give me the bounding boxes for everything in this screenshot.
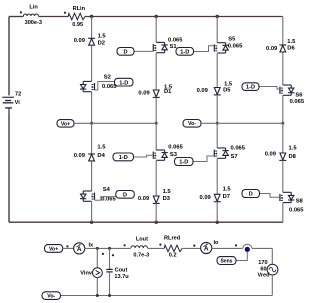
dc source Vi [2, 92, 21, 114]
svg-text:1-D: 1-D [180, 49, 189, 55]
polarity dot Cout [112, 254, 114, 256]
svg-text:1.5: 1.5 [287, 39, 296, 45]
svg-text:1-D: 1-D [179, 160, 188, 166]
svg-text:S2: S2 [104, 75, 111, 81]
svg-text:0.065: 0.065 [168, 38, 183, 44]
svg-text:RLred: RLred [164, 236, 181, 242]
svg-text:0.065: 0.065 [101, 196, 116, 202]
diode D6 [266, 39, 296, 52]
mosfet S4 [80, 187, 116, 202]
ammeter Io [201, 240, 219, 253]
resistor RLin [68, 6, 85, 28]
svg-text:0.09: 0.09 [266, 46, 278, 52]
wire c2 mid-S3 [155, 123, 157, 150]
node Sens (dot) [245, 247, 250, 252]
svg-text:1.5: 1.5 [163, 189, 172, 195]
wire right bottom [271, 275, 273, 296]
wire c2 S1-D1 [155, 53, 157, 90]
wire c4 S6-mid [282, 95, 284, 123]
diode D3 [138, 189, 172, 203]
junction Cout bottom [108, 294, 111, 297]
svg-text:0.065: 0.065 [231, 146, 246, 152]
svg-text:S4: S4 [103, 187, 111, 193]
svg-text:1-D: 1-D [119, 155, 128, 161]
diode D2 [74, 34, 107, 47]
junction bottom c2 [155, 221, 158, 224]
svg-text:S3: S3 [170, 152, 178, 158]
wire c2 top [155, 17, 157, 43]
mosfet S6 [280, 85, 305, 105]
svg-text:Vi: Vi [15, 100, 21, 106]
svg-text:60: 60 [260, 266, 266, 272]
node tag Sens [217, 257, 236, 265]
wire c2 S3-D3 [155, 160, 157, 196]
polarity dot Io left [193, 245, 195, 247]
diode D4 [74, 145, 107, 161]
svg-text:D: D [123, 192, 127, 198]
svg-text:1.5: 1.5 [224, 82, 233, 88]
svg-text:300e-3: 300e-3 [25, 20, 42, 26]
wire Vo+ to ammeter [63, 247, 74, 249]
ac source Vred [257, 260, 277, 278]
svg-text:RLin: RLin [73, 6, 86, 12]
svg-text:1-D: 1-D [246, 85, 255, 91]
svg-text:D3: D3 [163, 196, 171, 202]
wire c1 S4-bottom [91, 201, 93, 222]
svg-text:Lin: Lin [29, 5, 38, 11]
wire Io-node [212, 247, 243, 249]
junction mid c3 [216, 122, 219, 125]
gating block 1-D (S2) [115, 78, 134, 86]
inductor Lout [131, 236, 149, 258]
wire top rail seg2 [38, 16, 68, 18]
mosfet S8 [280, 192, 304, 213]
junction bottom c1 [90, 221, 93, 224]
svg-text:D5: D5 [223, 88, 231, 94]
svg-text:A: A [77, 246, 82, 253]
svg-text:Vo+: Vo+ [49, 246, 58, 252]
wire Vo- rail [201, 122, 283, 124]
svg-text:Vo+: Vo+ [61, 121, 70, 127]
svg-text:1.5: 1.5 [289, 146, 298, 152]
mosfet S5 [214, 37, 243, 53]
wire bottom rail [9, 221, 283, 223]
polarity dot Vinv [102, 253, 104, 255]
junction Cout top [108, 247, 111, 250]
wire c4 D8-S8 [282, 160, 284, 192]
node tag Vo+ (out) [45, 245, 63, 253]
polarity dot node [235, 244, 237, 246]
svg-text:D: D [249, 192, 253, 198]
diode D8 [265, 146, 298, 161]
wire c4 mid-D8 [282, 123, 284, 153]
svg-text:1.5: 1.5 [97, 145, 106, 151]
svg-text:S5: S5 [228, 37, 236, 43]
polarity dot Ix [66, 245, 68, 247]
junction top c2 [155, 15, 158, 18]
wire c3 D7-bottom [216, 202, 218, 223]
svg-text:0.09: 0.09 [74, 153, 86, 159]
svg-text:Vo-: Vo- [47, 294, 55, 300]
svg-text:0.09: 0.09 [265, 152, 277, 158]
wire c1 mid-D4 [91, 123, 93, 154]
wire c1 S2-mid [91, 92, 93, 124]
svg-text:72: 72 [15, 92, 21, 98]
wire c1 D2-S2 [91, 45, 93, 81]
polarity dot Lout [124, 244, 126, 246]
wire top rail seg3 [85, 16, 283, 18]
svg-text:S8: S8 [296, 198, 304, 204]
mosfet S7 [214, 146, 245, 160]
svg-text:0.2: 0.2 [169, 253, 177, 259]
svg-text:1.5: 1.5 [223, 187, 232, 193]
wire c1 top [91, 17, 93, 39]
wire top rail seg1 [9, 16, 24, 18]
svg-text:Lout: Lout [136, 236, 148, 242]
node tag Vo- (out) [42, 292, 61, 300]
svg-text:Sens: Sens [221, 258, 233, 264]
svg-text:D4: D4 [97, 153, 105, 159]
svg-text:D2: D2 [98, 41, 105, 47]
inductor Lin [23, 5, 42, 26]
wire ammeter-junctions [85, 247, 131, 249]
svg-text:D1: D1 [164, 89, 172, 95]
polarity dot RLred [159, 244, 161, 246]
svg-text:S7: S7 [231, 154, 238, 160]
junction mid c2 [155, 122, 158, 125]
svg-text:1.5: 1.5 [98, 34, 107, 40]
polarity dot RLin [64, 12, 66, 14]
svg-text:0.09: 0.09 [200, 195, 212, 201]
svg-text:D7: D7 [223, 194, 230, 200]
junction top c3 [216, 15, 219, 18]
wire c4 D6-S6 [282, 52, 284, 85]
diode D5 [197, 82, 233, 95]
wire gate S7 [193, 156, 214, 162]
junction mid c1 [90, 122, 93, 125]
wire right down [271, 248, 273, 264]
gating block 1-D (S5) [176, 48, 194, 56]
wire c4 top [282, 17, 284, 46]
svg-text:Io: Io [214, 240, 220, 246]
wire gate S4 [95, 197, 116, 201]
wire c3 D5-mid [216, 95, 218, 123]
ammeter Ix [74, 242, 94, 254]
svg-text:0.065: 0.065 [168, 145, 183, 151]
wire gate S3 [134, 155, 154, 157]
wire c3 S5-D5 [216, 53, 218, 88]
wire c2 D3-bottom [155, 203, 157, 222]
svg-text:0.09: 0.09 [197, 88, 209, 94]
wire Sens stub [236, 252, 247, 261]
gating block D (S1) [117, 48, 134, 56]
svg-text:0.09: 0.09 [74, 38, 86, 44]
wire Lout-RLred [147, 247, 164, 249]
diode D1 [138, 84, 172, 97]
wire node-corner [252, 247, 272, 249]
svg-text:A: A [204, 246, 209, 253]
svg-text:Vo-: Vo- [188, 121, 196, 127]
svg-text:D8: D8 [289, 154, 297, 160]
wire hop over Sens node [243, 244, 252, 248]
mosfet S3 [153, 145, 183, 161]
junction mid c4 [281, 122, 284, 125]
wire gate S1 [134, 50, 153, 52]
gating block D (S8) [242, 190, 260, 198]
gating block 1-D (S7) [175, 158, 194, 166]
svg-text:0.065: 0.065 [290, 99, 305, 105]
polarity dot Lin [20, 11, 22, 13]
mosfet S2 [80, 75, 117, 92]
diode D7 [200, 187, 232, 202]
junction Vinv top [96, 247, 99, 250]
svg-text:0.09: 0.09 [138, 196, 150, 202]
svg-text:13.7u: 13.7u [114, 274, 129, 280]
gating block 1-D (S6) [242, 83, 259, 91]
svg-text:Cout: Cout [115, 268, 128, 274]
capacitor Cout [106, 248, 129, 295]
wire c4 S8-bottom [282, 203, 284, 223]
node tag Vo+ (mid) [57, 120, 74, 128]
gating block 1-D (S3) [113, 153, 134, 161]
svg-text:0.7e-3: 0.7e-3 [133, 252, 149, 258]
svg-text:D: D [123, 49, 127, 55]
svg-text:D6: D6 [287, 46, 295, 52]
wire gate S2 [95, 82, 115, 91]
wire c3 mid-S7 [216, 123, 218, 148]
junction Vinv bottom [96, 294, 99, 297]
junction top c1 [90, 15, 93, 18]
wire gate S5 [194, 46, 215, 52]
wire RLred-Io [182, 247, 201, 249]
svg-text:0.95: 0.95 [72, 22, 83, 28]
svg-text:S6: S6 [295, 93, 303, 99]
wire left edge (source branch) [8, 17, 10, 96]
wire Vo+ rail [74, 122, 156, 124]
resistor RLred [164, 236, 182, 259]
wire left edge lower [8, 114, 10, 223]
junction bottom c3 [216, 221, 219, 224]
svg-text:1-D: 1-D [119, 80, 128, 86]
svg-text:0.09: 0.09 [138, 91, 150, 97]
wire c3 S7-D7 [216, 158, 218, 194]
wire c2 D1-mid [155, 97, 157, 123]
wire output bottom [61, 295, 273, 297]
mosfet S1 [153, 38, 183, 53]
voltmeter Vinv [80, 248, 102, 295]
wire gate S6 [259, 87, 280, 90]
svg-text:0.065: 0.065 [289, 208, 304, 214]
node tag Vo- (mid) [183, 120, 201, 128]
wire c1 D4-S4 [91, 161, 93, 191]
svg-text:Vred: Vred [257, 273, 270, 279]
wire gate S8 [260, 194, 280, 198]
svg-text:0.065: 0.065 [228, 43, 243, 49]
svg-text:Vinv: Vinv [80, 270, 93, 276]
svg-text:170: 170 [258, 260, 267, 266]
wire c3 top [216, 17, 218, 43]
gating block D (S4) [116, 191, 135, 199]
